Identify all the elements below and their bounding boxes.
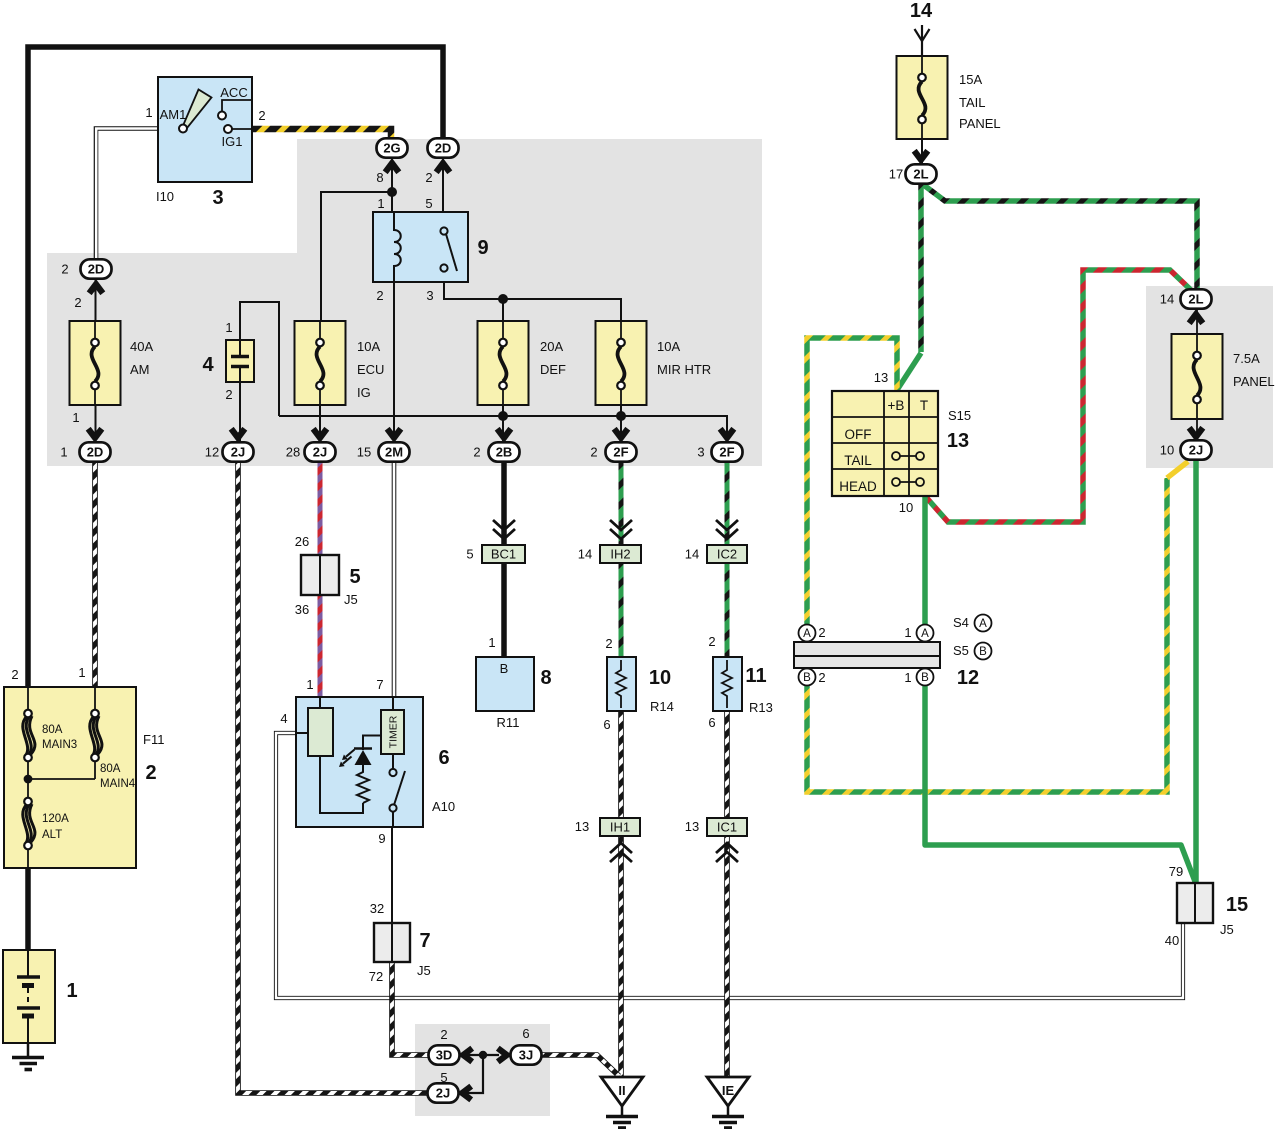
svg-text:AM: AM (130, 362, 150, 377)
A10 timer switch (389, 754, 405, 827)
svg-text:A: A (979, 618, 987, 630)
ground II triangle (601, 1077, 643, 1128)
connector oval 2J(5) (428, 1083, 459, 1102)
wire: black/white striped R14 to ground II (618, 711, 624, 1076)
arrow into 2J(10) (1189, 428, 1203, 437)
svg-text:9: 9 (378, 831, 385, 846)
wire: relay pin3 to DEF and MIR HTR fuses (444, 282, 621, 321)
connector IH2 (600, 545, 641, 563)
wire: DEF fuse to 2B (502, 405, 504, 444)
svg-text:PANEL: PANEL (959, 116, 1001, 131)
svg-text:15A: 15A (959, 72, 982, 87)
fuse 20A DEF (478, 321, 529, 405)
A10 mirror heater timer box (296, 697, 423, 827)
wire: TAIL PANEL fuse to 2L(17) (921, 139, 923, 166)
svg-text:S5: S5 (953, 643, 969, 658)
svg-text:ALT: ALT (42, 829, 62, 841)
S5 legend circle (975, 643, 992, 660)
arrow into 2F(2) (614, 429, 628, 438)
svg-text:2: 2 (590, 445, 597, 460)
arrow into 2J(12) (231, 429, 245, 438)
svg-text:F11: F11 (143, 732, 164, 747)
wire: black/white striped J5(7) to 3D (392, 962, 428, 1055)
wire: 2D to relay pin5 (442, 157, 444, 212)
svg-text:5: 5 (425, 196, 432, 211)
svg-text:2: 2 (818, 670, 825, 685)
node: junction at 2G pin8 (387, 187, 397, 197)
A10 resistor (357, 765, 369, 803)
svg-text:15: 15 (1226, 894, 1248, 916)
connector BC1 (482, 545, 525, 563)
svg-text:3: 3 (697, 445, 704, 460)
connector oval 2D(2) (81, 259, 112, 278)
svg-text:20A: 20A (540, 339, 563, 354)
wire: 14 feed arrow to TAIL PANEL fuse (921, 25, 923, 73)
svg-text:1: 1 (306, 677, 313, 692)
svg-text:PANEL: PANEL (1233, 374, 1275, 389)
svg-text:2: 2 (605, 636, 612, 651)
svg-text:2: 2 (440, 1027, 447, 1042)
capacitor 4 (noise filter) (226, 340, 254, 382)
wire: capacitor bottom to 2J(12) (239, 382, 241, 444)
battery 1 (3, 950, 55, 1043)
node: junction MIR HTR output (616, 411, 626, 421)
relay 9 coil (394, 212, 401, 282)
arrow into 2J(5) (462, 1086, 471, 1100)
svg-text:A: A (803, 628, 811, 640)
connector oval 2G (377, 138, 408, 157)
svg-text:14: 14 (910, 0, 933, 22)
svg-text:MAIN3: MAIN3 (42, 739, 77, 751)
svg-text:IC2: IC2 (717, 547, 737, 562)
svg-text:I10: I10 (156, 189, 174, 204)
wire: 2D(2) to AM fuse (95, 278, 97, 321)
wire: battery main thick black (border) (28, 47, 443, 690)
fusible link box F11 (4, 687, 136, 868)
relay 9 switch (446, 234, 457, 271)
svg-text:R14: R14 (650, 699, 674, 714)
connector J5 (15) (1177, 883, 1213, 923)
svg-text:1: 1 (377, 196, 384, 211)
svg-text:DEF: DEF (540, 362, 566, 377)
double chevron into IH2 (610, 520, 632, 539)
wire: 2G to relay pin1 (391, 157, 393, 212)
svg-text:13: 13 (874, 370, 888, 385)
svg-text:R11: R11 (497, 715, 520, 730)
svg-text:17: 17 (889, 167, 903, 182)
svg-text:1: 1 (488, 635, 495, 650)
ground: battery ground bars (12, 1056, 44, 1060)
svg-text:IC1: IC1 (717, 820, 737, 835)
svg-text:B: B (921, 672, 929, 684)
svg-text:14: 14 (1160, 292, 1174, 307)
svg-text:2: 2 (61, 262, 68, 277)
fusible link 80A MAIN3 (23, 710, 35, 762)
svg-text:5: 5 (466, 547, 473, 562)
svg-text:13: 13 (685, 819, 699, 834)
A10 timer block (381, 697, 404, 754)
wire: green S15 pin10 to S4 pinA1 (922, 496, 928, 625)
connector oval 2D top (428, 138, 459, 157)
resistor R13 (713, 657, 742, 711)
svg-text:8: 8 (376, 170, 383, 185)
wire: branch 2G junction to ECU IG fuse (321, 192, 392, 321)
svg-text:2: 2 (74, 295, 81, 310)
svg-text:8: 8 (540, 667, 551, 689)
svg-text:B: B (500, 661, 509, 676)
svg-text:II: II (618, 1083, 625, 1098)
light switch S15 (832, 391, 938, 496)
wire: relay pin2 to 2M (393, 282, 395, 444)
svg-text:7: 7 (419, 930, 430, 952)
arrow into 2G (385, 163, 399, 172)
svg-text:2M: 2M (385, 445, 403, 460)
svg-text:AM1: AM1 (160, 107, 187, 122)
node: junction 3D/3J (479, 1051, 487, 1059)
svg-text:3: 3 (212, 187, 223, 209)
wire: A10 pin9 to J5(7) (391, 827, 393, 923)
svg-text:2: 2 (376, 288, 383, 303)
fuse 40A AM (70, 321, 121, 405)
svg-text:OFF: OFF (845, 427, 872, 442)
arrow into 2D top (436, 163, 450, 172)
ground IE triangle (707, 1077, 749, 1128)
svg-text:3J: 3J (519, 1048, 533, 1063)
svg-text:6: 6 (438, 747, 449, 769)
svg-text:6: 6 (603, 717, 610, 732)
resistor R14 (607, 657, 636, 711)
arrow into 2L(17) (914, 151, 928, 160)
wire: capacitor top branch (240, 302, 279, 416)
wire: green 2J(10) to J5(15) pin79 (1193, 459, 1199, 883)
wire: green/black striped 2L(17) right to 2L(14) (921, 183, 1197, 291)
grey region right (1146, 286, 1273, 468)
wire: black/white striped 2D(1) to F11 pin1 (92, 460, 98, 687)
relay block R11 (476, 657, 534, 711)
svg-text:MIR HTR: MIR HTR (657, 362, 711, 377)
svg-text:TAIL: TAIL (844, 453, 872, 468)
fuse 10A MIR HTR (596, 321, 647, 405)
fuse 10A ECU IG (295, 321, 346, 405)
svg-text:J5: J5 (344, 592, 358, 607)
svg-text:40: 40 (1165, 933, 1179, 948)
svg-text:40A: 40A (130, 339, 153, 354)
svg-text:S15: S15 (948, 408, 971, 423)
svg-text:2: 2 (225, 387, 232, 402)
wire: purple/red striped 2J(28) through J5(5) to A10 pin1 (318, 460, 323, 697)
svg-text:32: 32 (370, 901, 384, 916)
svg-text:2: 2 (708, 634, 715, 649)
wire: black/white striped 3J to ground II (540, 1055, 619, 1076)
fusible link 120A ALT (23, 798, 35, 850)
connector oval 2J(10) (1181, 440, 1212, 459)
svg-text:10A: 10A (657, 339, 680, 354)
svg-text:1: 1 (78, 665, 85, 680)
svg-text:2: 2 (145, 762, 156, 784)
wire: F11 internal links (28, 687, 95, 868)
svg-text:MAIN4: MAIN4 (100, 778, 136, 790)
fuse 15A TAIL PANEL (897, 56, 948, 139)
wire: white A10 pin4 to J5(15) pin40 (276, 733, 1183, 998)
svg-text:2D: 2D (88, 262, 105, 277)
svg-text:T: T (920, 398, 928, 413)
svg-text:14: 14 (685, 547, 699, 562)
double chevron below IH1 (610, 843, 632, 862)
double chevron into BC1 (493, 520, 515, 539)
svg-text:2: 2 (473, 445, 480, 460)
ignition switch lever (184, 90, 212, 129)
wire: green/black striped 2F(2) to R14 (619, 460, 624, 657)
svg-text:2: 2 (818, 625, 825, 640)
svg-text:6: 6 (522, 1026, 529, 1041)
wire: 3D-3J junction links (460, 1054, 499, 1056)
connector IH1 (600, 818, 640, 836)
svg-text:2F: 2F (613, 445, 628, 460)
svg-text:IG1: IG1 (222, 134, 243, 149)
svg-text:B: B (803, 672, 811, 684)
relay 9 box (373, 212, 468, 282)
connector IC1 (707, 818, 747, 836)
svg-text:5: 5 (349, 566, 360, 588)
svg-text:1: 1 (60, 445, 67, 460)
node: junction DEF output (498, 411, 508, 421)
svg-text:14: 14 (578, 547, 592, 562)
svg-text:IG: IG (357, 385, 371, 400)
ignition switch I10 (158, 77, 252, 182)
svg-text:13: 13 (947, 430, 969, 452)
wire: green/black striped 2F(3) to R13 (725, 460, 730, 657)
svg-text:10A: 10A (357, 339, 380, 354)
svg-text:2J: 2J (436, 1086, 450, 1101)
wire: MIR HTR fuse to 2F(2) (620, 405, 622, 444)
A10 pin1 connector (308, 697, 333, 756)
arrow into 2F(3) (720, 429, 734, 438)
svg-text:10: 10 (649, 667, 671, 689)
connector J5 (7) (374, 923, 410, 962)
svg-text:2G: 2G (383, 141, 400, 156)
svg-text:80A: 80A (100, 763, 121, 775)
svg-text:J5: J5 (1220, 922, 1234, 937)
svg-text:4: 4 (202, 354, 214, 376)
fuse 7.5A PANEL (1172, 308, 1223, 442)
wire: thick black 2B to R11 (501, 460, 507, 657)
svg-text:1: 1 (904, 670, 911, 685)
connector oval 2F(3) (712, 442, 743, 461)
fusible link 80A MAIN4 (90, 710, 102, 762)
wire: green/black striped 2L(17) down to S15 pin13 (897, 183, 921, 390)
svg-text:2D: 2D (87, 445, 104, 460)
svg-text:2J: 2J (1189, 443, 1203, 458)
wire: bus from capacitor along fuse outputs to 2F(3) (279, 416, 727, 444)
arrow into 2L(14) (1189, 314, 1203, 323)
connector oval 2M(15) (379, 442, 410, 461)
node: junction relay pin3 / DEF (498, 294, 508, 304)
arrow into 3J (498, 1048, 507, 1062)
S4 legend circle (975, 615, 992, 632)
svg-text:28: 28 (286, 445, 300, 460)
grey region bottom middle (415, 1024, 550, 1116)
svg-text:IH1: IH1 (610, 820, 630, 835)
svg-text:12: 12 (957, 667, 979, 689)
svg-text:6: 6 (708, 715, 715, 730)
svg-text:12: 12 (205, 445, 219, 460)
shorting bar S4/S5 (12) (794, 625, 940, 686)
connector oval 2F(2) (606, 442, 637, 461)
wire: AM fuse to 2D(1) (95, 405, 97, 444)
wire: white wire I10 AM1 to 2D (96, 129, 158, 262)
svg-text:BC1: BC1 (491, 547, 516, 562)
svg-text:1: 1 (72, 410, 79, 425)
wire: red/green striped S15 pin10 to 2L(14) (925, 270, 1192, 522)
arrow into 3D (463, 1048, 472, 1062)
svg-text:5: 5 (440, 1070, 447, 1085)
wire: yellow/green striped S15 pin13 to S4 pinA2 to 2J(10) (807, 338, 1188, 792)
svg-text:ACC: ACC (220, 85, 247, 100)
svg-text:2B: 2B (496, 445, 513, 460)
connector J5 (5) (301, 555, 339, 595)
connector oval 2J(12) (223, 442, 254, 461)
svg-text:9: 9 (477, 237, 488, 259)
double chevron into IC2 (716, 520, 738, 539)
wire: white 2M to A10 pin7 (392, 460, 397, 697)
wire: black/white striped 2J(12) down and to 2J(5) (238, 460, 427, 1093)
svg-text:1: 1 (66, 980, 77, 1002)
svg-text:2D: 2D (435, 141, 452, 156)
arrow into 2J(28) (313, 429, 327, 438)
ignition switch AM1 contact (179, 125, 187, 133)
A10 internal wiring (296, 732, 308, 734)
connector IC2 (707, 545, 747, 563)
connector oval 2B(2) (489, 442, 520, 461)
svg-text:1: 1 (225, 320, 232, 335)
svg-text:26: 26 (295, 534, 309, 549)
svg-text:7: 7 (376, 677, 383, 692)
svg-text:2L: 2L (913, 167, 928, 182)
svg-text:2J: 2J (231, 445, 245, 460)
svg-text:80A: 80A (42, 724, 63, 736)
ignition switch IG1 contact (232, 128, 252, 130)
svg-text:2: 2 (258, 108, 265, 123)
svg-text:IE: IE (722, 1083, 735, 1098)
svg-text:7.5A: 7.5A (1233, 351, 1260, 366)
svg-text:79: 79 (1169, 864, 1183, 879)
A10 LED indicator (339, 749, 372, 768)
connector oval 2J(28) (305, 442, 336, 461)
svg-text:72: 72 (369, 969, 383, 984)
svg-text:36: 36 (295, 602, 309, 617)
svg-text:10: 10 (899, 500, 913, 515)
grey harness region main (47, 139, 762, 466)
connector oval 2L(17) (906, 164, 937, 183)
svg-text:R13: R13 (749, 700, 773, 715)
wire: black/white striped R13 to ground IE (724, 711, 730, 1076)
wire: green S5 pinB1 to J5(15) pin79 (925, 685, 1196, 884)
svg-text:1: 1 (145, 105, 152, 120)
svg-text:2J: 2J (313, 445, 327, 460)
arrow into 2M(15) (387, 429, 401, 438)
connector oval 2L(14) (1181, 289, 1212, 308)
svg-text:2: 2 (11, 667, 18, 682)
svg-text:1: 1 (904, 625, 911, 640)
svg-text:A: A (921, 628, 929, 640)
ignition switch ACC contact and link (222, 100, 252, 112)
double chevron below IC1 (716, 843, 738, 862)
arrow into 2B(2) (497, 429, 511, 438)
svg-text:HEAD: HEAD (839, 479, 877, 494)
connector oval 3D (429, 1045, 460, 1064)
svg-text:2: 2 (425, 170, 432, 185)
wire: battery to ground (27, 1043, 30, 1058)
arrow into 2D(1) (88, 429, 102, 438)
svg-text:IH2: IH2 (610, 547, 630, 562)
svg-text:B: B (979, 646, 987, 658)
svg-text:2L: 2L (1188, 292, 1203, 307)
svg-text:TAIL: TAIL (959, 95, 986, 110)
svg-text:15: 15 (357, 445, 371, 460)
svg-text:TIMER: TIMER (388, 715, 400, 748)
svg-text:120A: 120A (42, 813, 69, 825)
svg-text:3: 3 (426, 288, 433, 303)
svg-text:10: 10 (1160, 443, 1174, 458)
svg-text:+B: +B (888, 398, 905, 413)
node: junction F11 (24, 775, 33, 784)
wire: F11 to battery thick (25, 868, 31, 951)
svg-text:2F: 2F (719, 445, 734, 460)
svg-text:J5: J5 (417, 963, 431, 978)
svg-text:4: 4 (280, 711, 287, 726)
arrow into 2D(2) (89, 284, 103, 293)
connector oval 2D(1) (80, 442, 111, 461)
wire: yellow/black IG1 to 2G (252, 129, 391, 140)
svg-text:11: 11 (745, 665, 766, 687)
svg-text:13: 13 (575, 819, 589, 834)
connector oval 3J (511, 1045, 542, 1064)
svg-text:ECU: ECU (357, 362, 384, 377)
svg-text:S4: S4 (953, 615, 969, 630)
svg-text:3D: 3D (436, 1048, 453, 1063)
wire: ECU IG fuse to 2J(28) (319, 405, 321, 444)
svg-text:A10: A10 (432, 799, 455, 814)
